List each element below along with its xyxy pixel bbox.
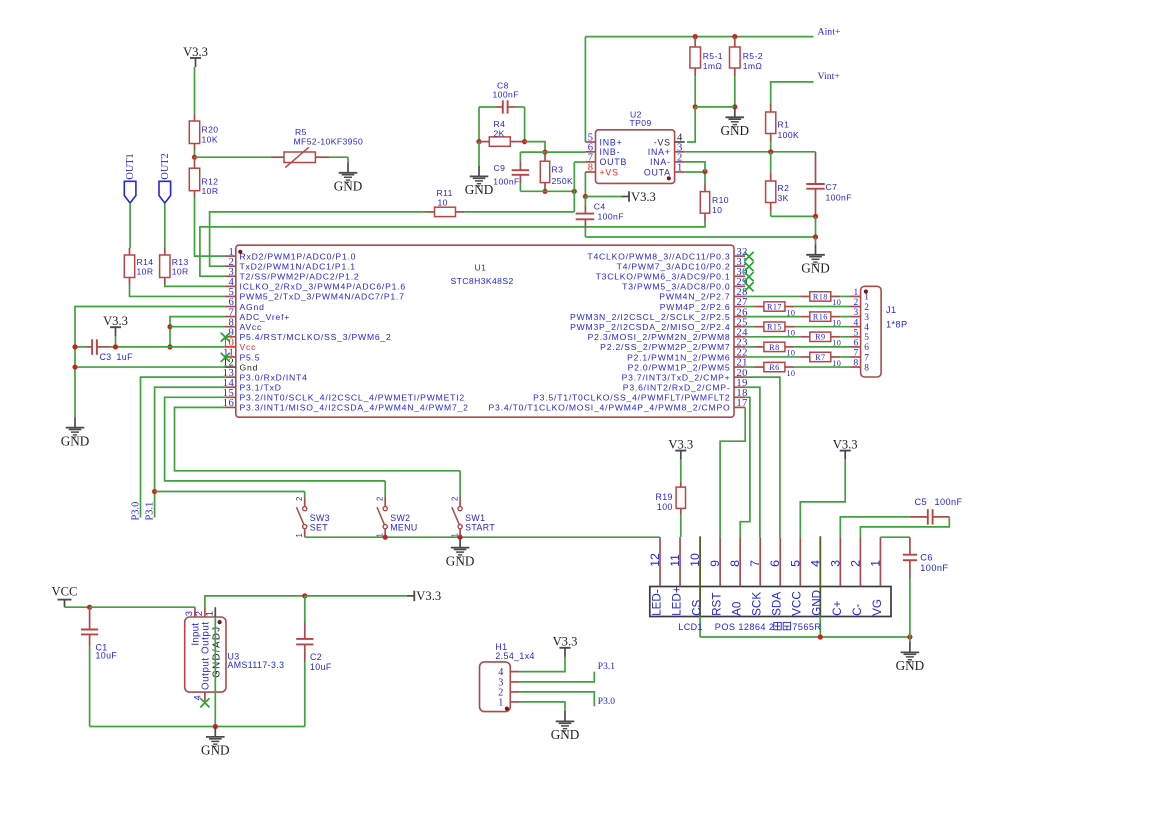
resistor R7 — [745, 356, 800, 358]
svg-text:P3.0/RxD/INT4: P3.0/RxD/INT4 — [240, 372, 308, 382]
svg-text:GND: GND — [721, 123, 750, 138]
svg-text:5: 5 — [854, 328, 859, 338]
node C7 bottom — [813, 214, 818, 219]
no-connect X U3 pin4 — [200, 698, 209, 707]
node R1/R2/INA+ — [768, 149, 773, 154]
svg-text:C5: C5 — [915, 497, 928, 507]
resistor R15 — [745, 326, 754, 328]
svg-text:INA+: INA+ — [648, 147, 671, 157]
svg-text:R2: R2 — [778, 183, 790, 193]
svg-text:R15: R15 — [767, 323, 782, 332]
svg-text:ICLKO_2/RxD_3/PWM4P/ADC6/P1.6: ICLKO_2/RxD_3/PWM4P/ADC6/P1.6 — [240, 282, 406, 292]
svg-text:RxD2/PWM1P/ADC0/P1.0: RxD2/PWM1P/ADC0/P1.0 — [240, 251, 357, 261]
wire C8 right to R4 — [524, 107, 526, 142]
resistor R19 — [680, 460, 682, 482]
node R5-1 top — [693, 34, 698, 39]
wire R14 to U1 pin5 — [130, 285, 225, 297]
wire pin14 to SW3 — [155, 491, 305, 493]
svg-text:GND: GND — [201, 743, 230, 758]
svg-text:R14: R14 — [137, 257, 154, 267]
wire R4 link to INB- row — [525, 142, 545, 153]
wire R13 to U1 pin4 — [165, 285, 225, 287]
svg-text:7565R: 7565R — [792, 622, 821, 632]
wire LCD pin 4 GND through to GND rail — [819, 536, 821, 616]
svg-text:1mΩ: 1mΩ — [743, 61, 763, 71]
svg-text:5: 5 — [864, 333, 869, 343]
wire R5 to GND — [329, 156, 348, 158]
svg-text:AMS1117-3.3: AMS1117-3.3 — [228, 660, 285, 670]
node Gnd row/AGnd vertical — [72, 364, 77, 369]
wire U1 pin19 to LCD SCK — [745, 387, 760, 537]
wire OUTB vertical — [573, 162, 575, 212]
ground GND (LCD) — [901, 642, 920, 662]
svg-text:R8: R8 — [769, 343, 779, 352]
capacitor C9 — [519, 152, 521, 161]
svg-text:P5.4/RST/MCLKO/SS_3/PWM6_2: P5.4/RST/MCLKO/SS_3/PWM6_2 — [240, 332, 392, 342]
svg-text:9: 9 — [708, 560, 722, 567]
svg-text:P2.0/PWM1P_2/PWM5: P2.0/PWM1P_2/PWM5 — [628, 362, 731, 372]
svg-text:GND: GND — [334, 179, 363, 194]
svg-text:2K: 2K — [494, 128, 505, 138]
svg-text:2: 2 — [848, 560, 862, 567]
svg-text:1: 1 — [204, 611, 215, 616]
svg-text:Gnd: Gnd — [240, 362, 259, 372]
svg-text:ADC_Vref+: ADC_Vref+ — [240, 312, 291, 322]
wire INA+ to C7 — [815, 152, 817, 184]
svg-text:PWM4P_2/P2.6: PWM4P_2/P2.6 — [660, 302, 731, 312]
svg-text:R10: R10 — [712, 195, 729, 205]
ground GND (C4/C7) — [806, 244, 825, 264]
wire V3.3 to LCD VCC — [800, 460, 845, 538]
net flag OUT1 — [124, 181, 136, 203]
svg-text:1*8P: 1*8P — [886, 320, 908, 330]
svg-text:V3.3: V3.3 — [553, 635, 578, 649]
svg-text:10: 10 — [688, 553, 702, 567]
node pin7/pin8 — [167, 324, 172, 329]
svg-text:R20: R20 — [202, 125, 219, 135]
svg-text:2: 2 — [864, 303, 869, 313]
svg-text:GND: GND — [811, 590, 824, 616]
svg-text:V3.3: V3.3 — [668, 437, 693, 451]
U2 right pins 4-1 — [675, 141, 685, 143]
svg-text:C6: C6 — [920, 552, 933, 562]
ground GND (R5) — [339, 162, 358, 182]
node SW1 bottom / GND — [458, 535, 463, 540]
capacitor C6 — [880, 536, 910, 538]
svg-text:R6: R6 — [769, 363, 779, 372]
svg-text:R5-1: R5-1 — [703, 51, 723, 61]
resistor R12 — [194, 157, 196, 168]
resistor R20 — [194, 114, 196, 121]
wire LCD pin 10 CS through to GND rail — [699, 536, 701, 616]
wire V3.3 to Vcc row — [115, 336, 117, 347]
svg-text:R7: R7 — [815, 353, 825, 362]
wire H1 pin3 P3.1 — [520, 672, 595, 682]
wire to GND (right) — [815, 237, 817, 244]
power flag V3.3 (U2) — [622, 191, 630, 201]
node R4 right — [522, 139, 527, 144]
node R20/R5/R12 junction — [192, 155, 197, 160]
wire to V3.3 flag (right) — [305, 595, 407, 597]
svg-text:T2/SS/PWM2P/ADC2/P1.2: T2/SS/PWM2P/ADC2/P1.2 — [240, 272, 360, 282]
resistor R16 — [745, 316, 800, 318]
svg-text:MF52-10KF3950: MF52-10KF3950 — [294, 136, 364, 146]
svg-text:8: 8 — [854, 359, 859, 369]
svg-text:LED+: LED+ — [670, 586, 683, 616]
node R5-2 bottom — [732, 104, 737, 109]
svg-text:TxD2/PWM1N/ADC1/P1.1: TxD2/PWM1N/ADC1/P1.1 — [240, 261, 356, 271]
svg-text:C7: C7 — [826, 182, 838, 192]
svg-text:10K: 10K — [202, 134, 219, 144]
svg-text:OUT2: OUT2 — [160, 153, 171, 179]
resistor R14 — [129, 248, 131, 255]
capacitor C8 — [479, 106, 496, 108]
svg-text:1: 1 — [864, 293, 869, 303]
wire -VS to GND rail — [687, 107, 695, 142]
wire bottom rail C1-U3-C2 — [90, 726, 305, 728]
resistor R1 — [770, 104, 772, 113]
wire U3 GND/ADJ to rail — [214, 617, 216, 727]
LCD pin 3 stub — [839, 537, 841, 586]
svg-text:GND: GND — [446, 553, 475, 568]
node R3 bottom — [542, 189, 547, 194]
node R5-2 top — [732, 34, 737, 39]
svg-text:P2.2/SS_2/PWM2P_2/PWM7: P2.2/SS_2/PWM2P_2/PWM7 — [600, 342, 730, 352]
ground GND (U3) — [206, 727, 225, 747]
wire U1 pin13 P3.0 — [141, 377, 225, 517]
svg-text:2: 2 — [193, 611, 204, 616]
svg-text:7: 7 — [748, 560, 762, 567]
node OUTA/INA-/R10 — [702, 169, 707, 174]
svg-text:OUT1: OUT1 — [125, 153, 136, 179]
resistor R18 — [745, 295, 800, 297]
svg-text:6: 6 — [864, 343, 869, 353]
svg-text:CS: CS — [690, 599, 703, 615]
svg-text:T4CLKO/PWM8_3//ADC11/P0.3: T4CLKO/PWM8_3//ADC11/P0.3 — [587, 251, 730, 261]
svg-text:+VS: +VS — [600, 167, 619, 177]
wire INA- jog — [685, 162, 705, 172]
wire R12 to U1 pin1 — [195, 198, 225, 256]
svg-text:P3.4/T0/T1CLKO/MOSI_4/PWM4P_4/: P3.4/T0/T1CLKO/MOSI_4/PWM4P_4/PWM8_2/CMP… — [489, 403, 731, 413]
svg-text:R17: R17 — [767, 302, 782, 311]
net flag OUT2 — [159, 181, 171, 203]
LCD pin 7 stub — [759, 537, 761, 586]
header J1 body — [861, 286, 882, 377]
svg-text:GND/ADJ: GND/ADJ — [211, 625, 222, 677]
svg-text:STC8H3K48S2: STC8H3K48S2 — [451, 276, 514, 286]
svg-text:PWM5_2/TxD_3/PWM4N/ADC7/P1.7: PWM5_2/TxD_3/PWM4N/ADC7/P1.7 — [240, 292, 405, 302]
lcd connector LCD1 body — [650, 587, 891, 617]
resistor R5-2 — [734, 37, 736, 47]
U1 left pins 1-16 — [225, 255, 236, 257]
capacitor C2 — [304, 596, 306, 623]
svg-text:P3.0: P3.0 — [130, 502, 141, 521]
svg-text:R5: R5 — [295, 127, 307, 137]
svg-text:P3.5/T1/T0CLKO/SS_4/PWMFLT/PWM: P3.5/T1/T0CLKO/SS_4/PWMFLT/PWMFLT2 — [533, 393, 730, 403]
svg-text:LCD1: LCD1 — [678, 622, 703, 632]
LCD pin 1 stub — [879, 537, 881, 586]
power flag V3.3 (C2) — [407, 591, 415, 601]
U3 pin4 stub — [204, 692, 206, 701]
wire U1 pin15 to SW2 — [165, 397, 386, 481]
wire OUT1 to R14 — [129, 203, 131, 248]
svg-text:2: 2 — [450, 497, 459, 501]
svg-text:OUTB: OUTB — [600, 157, 628, 167]
svg-text:C3: C3 — [100, 352, 112, 362]
svg-text:R13: R13 — [172, 257, 189, 267]
svg-text:SCK: SCK — [751, 592, 764, 616]
svg-text:T4/PWM7_3/ADC10/P0.2: T4/PWM7_3/ADC10/P0.2 — [617, 261, 731, 271]
svg-text:START: START — [465, 523, 495, 533]
svg-text:R1: R1 — [778, 120, 790, 130]
LCD pin 11 stub — [679, 537, 681, 586]
wire Aint+ rail — [585, 36, 813, 38]
capacitor C4 — [584, 197, 586, 206]
svg-text:C-: C- — [851, 603, 864, 615]
wire INA+ row — [685, 151, 816, 153]
svg-text:6: 6 — [854, 338, 859, 348]
resistor R17 — [745, 306, 754, 308]
svg-text:T3CLKO/PWM6_3/ADC9/P0.1: T3CLKO/PWM6_3/ADC9/P0.1 — [596, 272, 731, 282]
svg-text:10R: 10R — [137, 266, 154, 276]
svg-text:2: 2 — [375, 497, 384, 501]
wire U1 pin20 to LCD SDA — [745, 377, 780, 537]
svg-text:2.54_1x4: 2.54_1x4 — [495, 651, 534, 661]
thermistor R5 — [271, 156, 284, 158]
wire U1 pin17 to LCD RST — [720, 407, 745, 537]
ground GND (R5-1/R5-2) — [726, 107, 745, 127]
wire R11 to U1 pin2 — [210, 212, 425, 266]
svg-text:8: 8 — [588, 163, 594, 174]
wire +VS net — [584, 172, 586, 197]
svg-text:3: 3 — [828, 560, 842, 567]
LCD pin 9 stub — [719, 537, 721, 586]
svg-text:J1: J1 — [886, 305, 897, 315]
wire H1 pin4 to V3.3 — [520, 657, 565, 672]
svg-text:P3.3/INT1/MISO_4/I2CSDA_4/PWM4: P3.3/INT1/MISO_4/I2CSDA_4/PWM4N_4/PWM7_2 — [240, 403, 469, 413]
svg-text:7: 7 — [854, 349, 859, 359]
resistor R5-1 — [694, 37, 696, 47]
wire U1 pin6 AGnd — [75, 307, 225, 418]
svg-text:P5.5: P5.5 — [240, 352, 261, 362]
svg-text:RST: RST — [711, 593, 724, 616]
svg-text:R5-2: R5-2 — [743, 51, 763, 61]
svg-text:VG: VG — [871, 599, 884, 616]
svg-text:GND: GND — [61, 433, 90, 448]
U1 right pins 32-17 — [734, 255, 745, 257]
svg-text:P2.1/PWM1N_2/PWM6: P2.1/PWM1N_2/PWM6 — [627, 352, 730, 362]
no-connect X pin9 — [221, 333, 230, 342]
svg-text:250K: 250K — [552, 176, 574, 186]
LCD pin 2 stub — [859, 537, 861, 586]
svg-text:5: 5 — [788, 560, 802, 567]
svg-text:V3.3: V3.3 — [103, 314, 128, 328]
svg-text:V3.3: V3.3 — [416, 589, 441, 603]
svg-text:10R: 10R — [172, 266, 189, 276]
wire OUTA to R10 — [685, 171, 705, 173]
svg-text:AGnd: AGnd — [240, 302, 265, 312]
wire rail to GND symbol — [909, 637, 911, 642]
svg-text:3: 3 — [864, 313, 869, 323]
svg-text:SET: SET — [310, 523, 329, 533]
node GND pin rail — [818, 634, 823, 639]
wire OUTB row to U2 pin7 — [574, 161, 585, 163]
svg-text:3: 3 — [854, 308, 859, 318]
svg-text:PWM3P_2/I2CSDA_2/MISO_2/P2.4: PWM3P_2/I2CSDA_2/MISO_2/P2.4 — [570, 322, 730, 332]
U3 pin1 GND/ADJ stub — [214, 607, 216, 617]
svg-text:1: 1 — [868, 560, 882, 567]
node vertical/Vcc row — [167, 344, 172, 349]
U3 pin3 Input stub — [194, 607, 196, 617]
regulator U3 AMS1117-3.3 body — [185, 617, 226, 692]
svg-text:C9: C9 — [494, 163, 506, 173]
J1 pins 1-8 — [851, 295, 861, 297]
svg-text:INB+: INB+ — [600, 137, 623, 147]
wire +VS to V3.3 flag — [585, 196, 621, 198]
svg-text:SDA: SDA — [771, 592, 784, 616]
svg-text:3K: 3K — [778, 193, 789, 203]
wire U1 pin8 AVcc — [170, 326, 225, 328]
svg-text:R3: R3 — [552, 164, 564, 174]
wire OUT2 to R13 — [164, 203, 166, 248]
U3 pin2 Output stub — [204, 607, 206, 617]
wire INB- row — [520, 151, 585, 153]
svg-text:POS 12864 2: POS 12864 2 — [715, 622, 775, 632]
wire Vcc row (pin10) — [109, 346, 225, 348]
LCD pin 5 stub — [799, 537, 801, 586]
switch SW1 START — [459, 471, 461, 497]
wire C7 to rail — [815, 216, 817, 237]
svg-text:100nF: 100nF — [493, 90, 519, 100]
resistor R10 — [704, 172, 706, 183]
svg-text:OUTA: OUTA — [644, 167, 671, 177]
resistor R6 — [745, 366, 754, 368]
svg-text:P3.7/INT3/TxD_2/CMP+: P3.7/INT3/TxD_2/CMP+ — [622, 372, 731, 382]
node INB- / R3 top — [542, 150, 547, 155]
svg-text:2: 2 — [295, 497, 304, 501]
svg-text:Vint+: Vint+ — [818, 71, 841, 82]
svg-text:P3.2/INT0/SCLK_4/I2CSCL_4/PWME: P3.2/INT0/SCLK_4/I2CSCL_4/PWMETI/PWMETI2 — [240, 393, 465, 403]
svg-text:Aint+: Aint+ — [818, 26, 841, 37]
wire VCC to U3 — [65, 606, 90, 608]
wire H1 pin2 P3.0 — [520, 692, 595, 706]
wire junction to R5 — [195, 156, 271, 158]
wire C8 left to R4 — [478, 107, 480, 142]
resistor R9 — [745, 336, 800, 338]
svg-text:P3.1/TxD: P3.1/TxD — [240, 383, 282, 393]
resistor R3 — [544, 152, 546, 161]
wire H1 pin1 to GND — [520, 702, 565, 711]
ground GND (C8/R4) — [470, 166, 489, 186]
svg-text:GND: GND — [896, 658, 925, 673]
svg-text:AVcc: AVcc — [240, 322, 263, 332]
svg-text:1mΩ: 1mΩ — [703, 61, 723, 71]
wire Vint+ rail — [771, 82, 814, 104]
svg-text:1: 1 — [854, 288, 859, 298]
svg-text:10: 10 — [438, 197, 448, 207]
wire U1 pin12 Gnd — [75, 366, 225, 368]
svg-text:10: 10 — [712, 205, 722, 215]
capacitor C5 — [840, 517, 909, 537]
svg-text:12: 12 — [648, 553, 662, 567]
svg-text:Output Output: Output Output — [200, 621, 211, 690]
LCD pin 12 stub — [659, 537, 661, 586]
capacitor C7 — [806, 184, 824, 189]
svg-text:100nF: 100nF — [826, 193, 852, 203]
wire R2 to C7 bottom — [771, 215, 816, 217]
LCD pin 6 stub — [779, 537, 781, 586]
resistor R13 — [164, 248, 166, 255]
wire LCD bottom GND rail — [700, 636, 910, 638]
svg-text:R11: R11 — [437, 188, 453, 198]
svg-text:C4: C4 — [594, 201, 606, 211]
wire U1 pin14 P3.1 — [155, 387, 225, 517]
wire U1 pin16 to SW1 — [175, 407, 461, 470]
svg-text:100K: 100K — [778, 130, 800, 140]
svg-text:10R: 10R — [202, 186, 219, 196]
node +VS/C4/V3.3 — [583, 194, 588, 199]
svg-text:10uF: 10uF — [96, 651, 118, 661]
node C4 rail / GND — [813, 234, 818, 239]
svg-text:10uF: 10uF — [310, 662, 332, 672]
wire V3.3 to R20 — [194, 67, 196, 114]
no-connect X pin11 — [221, 353, 230, 362]
svg-text:MENU: MENU — [390, 523, 418, 533]
wire R5-1/R5-2 bottoms — [695, 106, 735, 108]
wire U1 pin7 ADC_Vref+ — [170, 317, 225, 347]
node OUTB rail — [572, 189, 577, 194]
node U3 GND rail — [213, 724, 218, 729]
svg-text:1: 1 — [677, 163, 683, 174]
svg-text:P3.0: P3.0 — [598, 697, 615, 707]
svg-text:10: 10 — [786, 369, 795, 378]
svg-text:100nF: 100nF — [920, 563, 948, 573]
svg-text:U1: U1 — [475, 263, 487, 273]
svg-text:R16: R16 — [813, 313, 828, 322]
H1 pins 4-1 — [510, 671, 519, 673]
resistor R8 — [745, 346, 754, 348]
switch SW3 SET — [304, 492, 306, 498]
svg-text:T3/PWM5_3/ADC8/P0.0: T3/PWM5_3/ADC8/P0.0 — [622, 282, 730, 292]
resistor R11 — [464, 211, 574, 213]
svg-text:P2.3/MOSI_2/PWM2N_2/PWM8: P2.3/MOSI_2/PWM2N_2/PWM8 — [588, 332, 731, 342]
node R4 left — [476, 139, 481, 144]
wire switch bottom rail to LCD LED- — [305, 536, 660, 538]
svg-text:4: 4 — [808, 560, 822, 567]
svg-text:INB-: INB- — [600, 147, 621, 157]
capacitor C1 — [89, 607, 91, 622]
no-connect X pins 32-29 — [744, 252, 753, 261]
svg-text:PWM3N_2/I2CSCL_2/SCLK_2/P2.5: PWM3N_2/I2CSCL_2/SCLK_2/P2.5 — [570, 312, 730, 322]
node C1 top — [87, 605, 92, 610]
svg-text:VCC: VCC — [791, 591, 804, 616]
header H1 2.54_1x4 body — [480, 662, 511, 712]
svg-text:7: 7 — [864, 353, 869, 363]
svg-text:8: 8 — [728, 560, 742, 567]
wire U1 pin3 long to R10 — [200, 222, 705, 276]
svg-text:R19: R19 — [655, 492, 672, 502]
svg-text:INA-: INA- — [650, 157, 671, 167]
LCD pin 8 stub — [739, 537, 741, 586]
wire C9/R3 bottom rail — [520, 190, 574, 192]
svg-text:4: 4 — [854, 318, 859, 328]
svg-text:R9: R9 — [815, 333, 825, 342]
node C6/GND rail — [907, 634, 912, 639]
U2 left pins 5-8 — [585, 141, 595, 143]
svg-text:A0: A0 — [731, 601, 744, 616]
switch SW2 MENU — [384, 481, 386, 497]
mcu U1 STC8H3K48S2 body — [236, 245, 734, 417]
